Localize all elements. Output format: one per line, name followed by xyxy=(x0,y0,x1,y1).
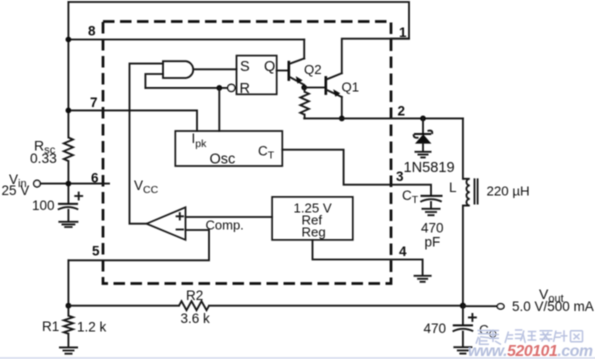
comparator xyxy=(147,207,186,240)
ground CT xyxy=(422,209,441,215)
wire AND output to S xyxy=(195,68,237,70)
resistor R2 xyxy=(179,301,209,310)
node dot Q1 emitter on pin2 wire xyxy=(339,116,345,122)
wire output node to Co xyxy=(462,306,464,325)
ref box 1.25V xyxy=(272,197,353,240)
wire Q2 collector up xyxy=(303,40,305,59)
wire inductor to output node xyxy=(462,206,464,306)
svg-text:7: 7 xyxy=(90,95,98,110)
svg-text:1: 1 xyxy=(399,25,407,40)
node dot output xyxy=(460,303,466,309)
wire output to terminal xyxy=(463,305,497,307)
IC dashed boundary box xyxy=(103,22,391,284)
svg-text:470: 470 xyxy=(424,321,447,336)
wire cap to ground xyxy=(67,210,69,222)
svg-text:R1: R1 xyxy=(42,319,59,334)
comparator minus xyxy=(177,229,183,231)
wire R line xyxy=(145,87,227,89)
AND gate U2 xyxy=(163,61,193,78)
wire pin 7 xyxy=(68,110,197,131)
svg-text:3: 3 xyxy=(396,169,404,184)
svg-text:pF: pF xyxy=(425,235,441,250)
resistor Rsc xyxy=(64,138,73,162)
wire Q1 collector to pin1 xyxy=(342,39,409,73)
capacitor 100uF top plate xyxy=(58,203,78,205)
wire ref box to pin 4 xyxy=(313,240,423,276)
wire R2 row right xyxy=(209,305,463,307)
svg-text:2: 2 xyxy=(398,104,406,119)
wire Q output to Q2 base xyxy=(277,70,289,72)
node dot feedback junction xyxy=(66,303,72,309)
node dot Q2 emitter / Q1 base xyxy=(301,85,307,91)
svg-text:Q: Q xyxy=(264,59,275,75)
Ipk/Osc box xyxy=(175,131,282,166)
svg-text:R2: R2 xyxy=(186,288,203,303)
node dot R line xyxy=(216,85,222,91)
node dot pin8 rail xyxy=(66,37,72,43)
capacitor CT curved plate xyxy=(420,199,441,202)
transistor Q1 xyxy=(324,76,327,95)
node dot diode junction xyxy=(420,116,426,122)
svg-text:Osc: Osc xyxy=(210,152,236,168)
svg-text:5.0 V/500 mA: 5.0 V/500 mA xyxy=(512,299,594,314)
inductor L xyxy=(463,179,470,206)
capacitor 100uF input: plus sign xyxy=(75,193,82,200)
terminal Vout circle xyxy=(497,304,504,309)
svg-text:8: 8 xyxy=(88,24,96,39)
terminal Vin circle xyxy=(34,180,41,187)
svg-text:Reg: Reg xyxy=(302,225,326,240)
wire pin2 corner down to inductor xyxy=(462,118,464,178)
svg-text:Comp.: Comp. xyxy=(206,218,244,233)
ground input cap xyxy=(58,222,78,227)
svg-text:Q2: Q2 xyxy=(304,62,322,77)
wire CT from Osc box to pin 3 xyxy=(282,150,431,196)
svg-text:1N5819: 1N5819 xyxy=(404,160,455,176)
latch U1 box xyxy=(237,56,277,95)
svg-text:4: 4 xyxy=(399,244,407,259)
wire diode stem xyxy=(422,118,424,133)
wire Vin left rail upper xyxy=(67,2,69,138)
bottom page strip xyxy=(0,357,595,359)
ground diode xyxy=(415,152,432,158)
svg-text:470: 470 xyxy=(421,221,444,236)
wire pin 5 xyxy=(68,230,209,260)
wire AND top input from comparator xyxy=(130,64,164,224)
wire AND bottom input from R line xyxy=(145,74,163,88)
inductor core lines xyxy=(475,178,478,204)
svg-text:1.2 k: 1.2 k xyxy=(77,320,107,335)
watermark chinese characters xyxy=(476,330,583,346)
wire comparator plus input to ref box xyxy=(186,216,273,218)
node dot pin7 rail xyxy=(66,108,72,114)
wire Q1 emitter down xyxy=(341,97,343,118)
svg-text:L: L xyxy=(449,180,457,195)
svg-text:100: 100 xyxy=(32,198,55,213)
capacitor 100uF curved plate xyxy=(58,207,78,210)
transistor Q2 xyxy=(287,61,290,81)
svg-text:0.33: 0.33 xyxy=(30,151,57,166)
svg-text:5: 5 xyxy=(92,244,100,259)
svg-text:6: 6 xyxy=(91,171,99,186)
svg-text:3.6 k: 3.6 k xyxy=(181,311,211,326)
ground R1 xyxy=(59,347,78,353)
wire R2 row left xyxy=(68,305,179,307)
inverter bubble R input xyxy=(228,84,235,91)
wire pin 2 xyxy=(304,117,463,119)
svg-text:www.520101.com: www.520101.com xyxy=(468,343,593,359)
capacitor CT top plate xyxy=(421,195,443,197)
wire CT to ground xyxy=(430,202,432,209)
svg-text:R: R xyxy=(240,81,250,97)
wire pin 8 xyxy=(68,39,304,41)
svg-text:Q1: Q1 xyxy=(342,80,360,95)
wire top rail Vin to pin1 drop xyxy=(68,2,409,39)
capacitor Co curved plate xyxy=(453,329,474,332)
svg-text:220 µH: 220 µH xyxy=(487,184,530,199)
wire pin 6 from Vin terminal xyxy=(40,183,109,185)
node dot Vin xyxy=(66,181,72,187)
wire feedback rail down xyxy=(67,260,69,305)
wire Co to ground xyxy=(462,332,464,347)
resistor R1 xyxy=(67,306,69,316)
wire Rsc to Vin node xyxy=(67,161,69,203)
wire Q2 emitter node to Q1 base xyxy=(304,87,326,89)
resistor Q2 base-emitter xyxy=(303,88,305,92)
svg-text:25 V: 25 V xyxy=(2,183,30,198)
comparator plus xyxy=(177,213,183,219)
capacitor Co output: plus sign xyxy=(469,314,476,321)
ground pin 4 xyxy=(414,276,432,282)
capacitor Co top plate xyxy=(453,324,473,326)
ground Co xyxy=(453,347,472,353)
svg-text:S: S xyxy=(240,59,250,75)
wire R dot to Osc box xyxy=(218,88,220,131)
diode D1 1N5819 schottky xyxy=(415,134,431,143)
